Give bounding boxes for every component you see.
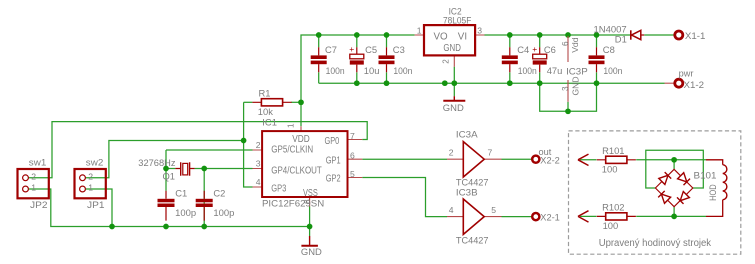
svg-text:GP3: GP3 bbox=[271, 183, 286, 194]
wire IC3B output to X2-1 bbox=[502, 216, 533, 218]
IC3P Vdd pin bbox=[567, 36, 569, 62]
wire R101 row bbox=[580, 159, 596, 161]
svg-text:1: 1 bbox=[88, 183, 93, 193]
svg-text:sw1: sw1 bbox=[29, 157, 47, 168]
wire C6 leads bbox=[539, 35, 541, 47]
svg-text:X1-2: X1-2 bbox=[684, 79, 705, 90]
wire bridge ac loop bbox=[646, 150, 704, 188]
crystal Q1 body bbox=[183, 163, 188, 175]
capacitor C4 plates bbox=[502, 55, 518, 64]
diode D1 cathode bar bbox=[630, 30, 632, 39]
connector JP1 pin 1 circle bbox=[80, 186, 86, 192]
node R1/VDD bbox=[298, 99, 304, 105]
wire net sw1 to GP0 (rail above IC1) bbox=[28, 122, 367, 178]
resistor R102 body bbox=[606, 213, 627, 220]
svg-text:VI: VI bbox=[458, 32, 467, 43]
svg-text:GP5/CLKIN: GP5/CLKIN bbox=[271, 145, 313, 156]
svg-text:C4: C4 bbox=[517, 44, 529, 55]
svg-text:X1-1: X1-1 bbox=[685, 30, 706, 41]
svg-text:TC4427: TC4427 bbox=[456, 234, 489, 245]
svg-text:GP1: GP1 bbox=[326, 155, 341, 166]
connector JP1 pin 2 circle bbox=[80, 175, 86, 181]
wire C8 bottom bbox=[596, 72, 598, 83]
junction gnd-b bbox=[451, 80, 457, 86]
wire C6 bottom bbox=[539, 72, 541, 83]
crystal Q1 plates bbox=[181, 162, 190, 176]
capacitor C5 (polarized) lead bbox=[356, 47, 358, 72]
wire net sw2 to R1/GP3 bbox=[85, 141, 243, 178]
wire C3 top lead bbox=[386, 35, 388, 47]
svg-text:IC3B: IC3B bbox=[456, 187, 478, 198]
bridge B101 frame bbox=[655, 169, 692, 206]
op-amp IC1 pin stubs bbox=[253, 126, 363, 206]
capacitor C8 plates bbox=[589, 55, 605, 64]
svg-text:C6: C6 bbox=[544, 44, 556, 55]
wire C7 top lead bbox=[318, 35, 320, 47]
junction IC3P GND bbox=[565, 108, 571, 114]
junction C5 bottom bbox=[354, 80, 360, 86]
connector JP2 (sw1) body bbox=[18, 169, 49, 198]
resistor R102 leads bbox=[597, 215, 636, 217]
svg-text:X2-2: X2-2 bbox=[540, 155, 560, 166]
wire IC3P gnd loop bbox=[540, 83, 597, 111]
IC3P GND pin bbox=[567, 80, 569, 102]
wire C4 leads bbox=[509, 35, 511, 47]
capacitor C3 lead bbox=[386, 47, 388, 72]
svg-text:GND: GND bbox=[301, 246, 322, 257]
svg-text:7: 7 bbox=[488, 148, 493, 158]
svg-text:Q1: Q1 bbox=[163, 170, 176, 181]
svg-text:10u: 10u bbox=[364, 65, 380, 76]
wire R102 row bbox=[580, 215, 596, 217]
svg-text:1: 1 bbox=[417, 25, 422, 35]
bridge B101 diode left-top bbox=[659, 175, 668, 184]
connector JP1 (sw2) body bbox=[75, 169, 106, 198]
ground lead under IC1 bbox=[309, 236, 311, 245]
IC IC1 body bbox=[262, 131, 347, 197]
svg-text:6: 6 bbox=[350, 151, 355, 161]
buffer IC3B triangle bbox=[463, 199, 484, 234]
wire C2 drop bbox=[203, 169, 205, 227]
node XTAL1/C1 bbox=[163, 166, 169, 172]
ground lead under IC2 bbox=[453, 96, 455, 100]
svg-text:1: 1 bbox=[31, 183, 36, 193]
resistor R101 leads bbox=[597, 159, 636, 161]
wire C4 bottom bbox=[509, 72, 511, 83]
junction C2-GND bbox=[201, 224, 207, 230]
wire net GND rail (caps) bbox=[319, 82, 665, 84]
svg-text:IC3P: IC3P bbox=[566, 66, 588, 77]
capacitor C7 lead bbox=[318, 47, 320, 72]
buffer IC3A triangle bbox=[463, 142, 484, 177]
svg-text:R1: R1 bbox=[259, 88, 271, 99]
svg-text:78L05F: 78L05F bbox=[443, 14, 472, 25]
junction VSS-GND bbox=[307, 224, 313, 230]
arrow to X2-1 bbox=[578, 211, 589, 222]
wire R102 to coil bottom bbox=[636, 215, 706, 217]
wire IC3P GND pin join bbox=[567, 102, 569, 112]
junction C7 top bbox=[316, 32, 322, 38]
svg-text:+: + bbox=[532, 44, 537, 54]
svg-text:GND: GND bbox=[443, 43, 461, 54]
junction C8 bottom bbox=[594, 80, 600, 86]
capacitor C6 (polarized) lead bbox=[539, 47, 541, 72]
svg-text:3: 3 bbox=[477, 25, 482, 35]
svg-text:1: 1 bbox=[286, 123, 295, 128]
wire VDD drop to IC1 pin1 bbox=[300, 102, 302, 126]
svg-text:VO: VO bbox=[434, 32, 449, 43]
capacitor C3 plates bbox=[379, 55, 395, 64]
junction C3 top bbox=[384, 32, 390, 38]
wire net R1 bottom to GP3 pin bbox=[244, 141, 253, 188]
resistor R1 leads bbox=[252, 101, 291, 103]
junction sw2-GND bbox=[109, 224, 115, 230]
svg-text:100n: 100n bbox=[326, 65, 345, 76]
bridge B101 diode bottom-left bbox=[661, 194, 670, 203]
wire C7 bottom lead to rail bbox=[318, 72, 320, 83]
svg-text:7: 7 bbox=[350, 131, 355, 141]
capacitor C1 plates bbox=[158, 199, 175, 207]
capacitor C5 plates bbox=[350, 54, 364, 64]
svg-text:8: 8 bbox=[303, 199, 312, 204]
svg-text:X2-1: X2-1 bbox=[540, 212, 560, 223]
wire bridge bottom drop bbox=[673, 207, 675, 217]
svg-text:R102: R102 bbox=[602, 202, 624, 213]
connector X1-2 pin stub bbox=[665, 82, 674, 84]
svg-text:2: 2 bbox=[449, 148, 454, 158]
junction C4 bottom bbox=[507, 80, 513, 86]
svg-text:C5: C5 bbox=[365, 44, 377, 55]
svg-text:GND: GND bbox=[443, 102, 464, 113]
svg-text:HOD: HOD bbox=[707, 184, 718, 201]
voltage regulator IC2 body bbox=[424, 25, 475, 55]
svg-text:100: 100 bbox=[603, 220, 619, 231]
svg-text:2: 2 bbox=[31, 171, 36, 181]
IC3B pin stubs bbox=[447, 216, 502, 218]
svg-text:2: 2 bbox=[441, 59, 450, 64]
capacitor C7 plates bbox=[311, 55, 327, 64]
inductor coil leads bbox=[706, 160, 723, 217]
svg-text:C7: C7 bbox=[325, 44, 337, 55]
wire C3 bottom lead bbox=[386, 72, 388, 83]
wire net GND bottom rail from sw1 bbox=[28, 189, 309, 227]
wire crystal right to CLKOUT pin3 bbox=[195, 168, 253, 170]
capacitor C1 lead bbox=[165, 191, 167, 221]
diode D1 lead bbox=[641, 34, 644, 36]
svg-text:GND: GND bbox=[571, 76, 581, 95]
svg-text:4: 4 bbox=[256, 177, 261, 187]
wire crystal left stub bbox=[166, 168, 175, 170]
capacitor C6 plates bbox=[533, 54, 547, 64]
svg-text:D1: D1 bbox=[615, 33, 627, 44]
wire IC3A output to X2-2 bbox=[502, 158, 533, 160]
node R1/sw2/GP3 bbox=[241, 138, 247, 144]
node bridge top bbox=[671, 157, 677, 163]
capacitor C2 plates bbox=[196, 199, 213, 207]
arrow to X2-2 bbox=[578, 154, 589, 165]
connector JP2 pin 2 circle bbox=[23, 175, 29, 181]
svg-text:100p: 100p bbox=[175, 207, 196, 218]
svg-text:2: 2 bbox=[88, 171, 93, 181]
svg-text:VSS: VSS bbox=[303, 188, 318, 199]
svg-text:pwr: pwr bbox=[679, 67, 694, 78]
svg-text:sw2: sw2 bbox=[86, 157, 104, 168]
svg-text:3: 3 bbox=[561, 86, 570, 91]
svg-text:IC1: IC1 bbox=[262, 116, 277, 127]
inductor coil (clock coil) bbox=[723, 165, 727, 200]
junction C4 top bbox=[507, 32, 513, 38]
wire GP1 to IC3A input bbox=[362, 158, 447, 160]
svg-text:B101: B101 bbox=[694, 170, 717, 181]
connector X1-1 pad bbox=[675, 31, 683, 39]
svg-text:100: 100 bbox=[602, 163, 618, 174]
wire C5 bottom lead bbox=[356, 72, 358, 83]
wire R101 to bridge top node bbox=[636, 159, 706, 161]
svg-text:2: 2 bbox=[256, 140, 261, 150]
svg-text:10k: 10k bbox=[258, 106, 273, 117]
svg-text:+: + bbox=[349, 44, 354, 54]
junction C8 top bbox=[594, 32, 600, 38]
svg-text:100p: 100p bbox=[213, 207, 234, 218]
junction C6 top bbox=[537, 32, 543, 38]
connector X1-2 pad bbox=[675, 79, 683, 87]
wire crystal left to CLKIN pin2 bbox=[166, 149, 253, 151]
IC2 pin stubs bbox=[415, 35, 485, 67]
svg-text:100n: 100n bbox=[603, 65, 622, 76]
svg-text:4: 4 bbox=[449, 205, 454, 215]
bridge B101 diode top-right bbox=[678, 173, 687, 182]
resistor R101 body bbox=[606, 156, 627, 163]
wire R1 left lead down bbox=[244, 101, 253, 103]
crystal Q1 leads bbox=[175, 168, 194, 170]
wire IC2 GND pin to rail bbox=[453, 67, 455, 97]
junction gnd-a bbox=[442, 80, 448, 86]
ground symbol under IC2 bbox=[443, 100, 465, 102]
ground symbol under IC1 bbox=[301, 245, 318, 247]
connector JP2 pin 1 circle bbox=[23, 186, 29, 192]
resistor R1 body bbox=[261, 99, 282, 106]
dashed box (clock movement) bbox=[569, 131, 741, 254]
wire C5 top lead bbox=[356, 35, 358, 47]
diode D1 triangle bbox=[632, 30, 641, 39]
wire C8 leads bbox=[596, 35, 598, 47]
wire R1 right to VDD node bbox=[291, 101, 301, 103]
wire bridge top drop bbox=[673, 160, 675, 170]
svg-text:5: 5 bbox=[350, 169, 355, 179]
wire GP2 to IC3B input bbox=[362, 178, 447, 217]
wire sw2 pin1 to GND rail bbox=[85, 189, 112, 227]
svg-text:100n: 100n bbox=[393, 65, 412, 76]
svg-text:GP0: GP0 bbox=[325, 136, 340, 147]
wire net Vin rail (IC2 pin3 to D1) bbox=[484, 34, 630, 36]
svg-text:C8: C8 bbox=[603, 44, 615, 55]
node XTAL2/C2 bbox=[201, 166, 207, 172]
wire R1 left vertical bbox=[243, 102, 245, 140]
junction IC3P Vdd bbox=[565, 32, 571, 38]
junction C1-GND bbox=[163, 224, 169, 230]
svg-text:100n: 100n bbox=[518, 65, 537, 76]
capacitor C2 lead bbox=[203, 191, 205, 221]
svg-text:32768Hz: 32768Hz bbox=[138, 157, 176, 168]
junction C6 bottom bbox=[537, 80, 543, 86]
capacitor C4 lead bbox=[509, 47, 511, 72]
svg-text:Upravený hodinový strojek: Upravený hodinový strojek bbox=[599, 238, 711, 249]
svg-text:5: 5 bbox=[491, 205, 496, 215]
bridge B101 diode right-bottom bbox=[680, 192, 689, 201]
connector X2-2 pad bbox=[532, 156, 539, 163]
junction C3 bottom bbox=[384, 80, 390, 86]
IC3A pin stubs bbox=[447, 158, 502, 160]
svg-text:C2: C2 bbox=[213, 187, 225, 198]
svg-text:IC3A: IC3A bbox=[456, 129, 478, 140]
junction C5 top bbox=[354, 32, 360, 38]
svg-text:47u: 47u bbox=[547, 65, 563, 76]
connector X2-1 pad bbox=[532, 213, 539, 220]
svg-text:VDD: VDD bbox=[292, 134, 310, 145]
wire net +5V rail left bbox=[301, 35, 415, 102]
node bridge bottom bbox=[671, 214, 677, 220]
svg-text:C1: C1 bbox=[175, 187, 187, 198]
svg-text:3: 3 bbox=[256, 159, 261, 169]
wire D1 to X1-1 bbox=[644, 34, 673, 36]
svg-text:GP4/CLKOUT: GP4/CLKOUT bbox=[271, 165, 322, 176]
svg-text:GP2: GP2 bbox=[326, 173, 341, 184]
wire crystal left vertical / C1 bbox=[165, 150, 167, 191]
svg-text:JP1: JP1 bbox=[87, 199, 105, 210]
capacitor C8 lead bbox=[596, 47, 598, 72]
svg-text:Vdd: Vdd bbox=[570, 37, 580, 53]
svg-text:C3: C3 bbox=[393, 44, 405, 55]
svg-text:R101: R101 bbox=[602, 145, 624, 156]
svg-text:JP2: JP2 bbox=[30, 199, 48, 210]
wire VSS to GND bbox=[309, 207, 311, 237]
